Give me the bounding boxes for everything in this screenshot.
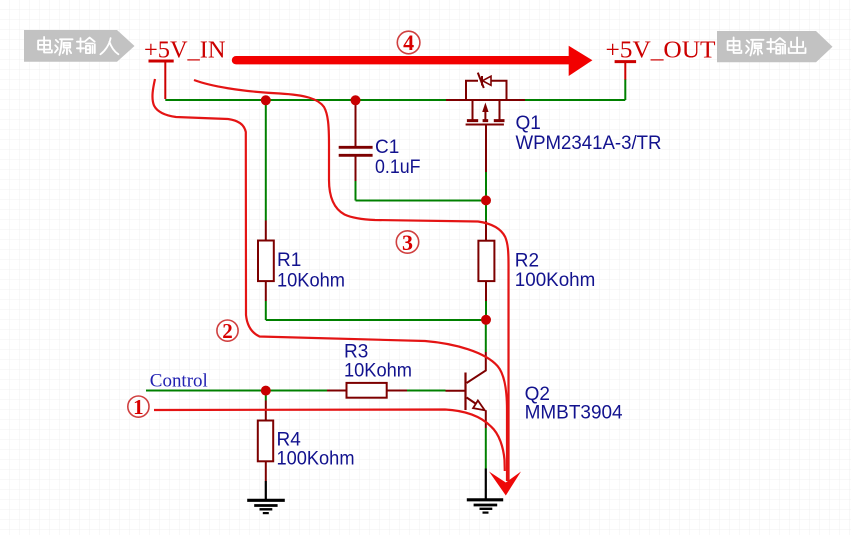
wire Q2 collector: [485, 320, 487, 352]
ground under R4: [247, 481, 285, 513]
power port +5V_OUT symbol: [615, 62, 637, 80]
transistor Q2 NPN: [446, 352, 486, 428]
circled number 2: [217, 319, 238, 343]
gate pin: [485, 125, 487, 173]
legs: [473, 100, 500, 121]
wire R1 branch lower: [265, 301, 267, 320]
wire bottom rail R1-R2: [266, 319, 486, 321]
svg-text:100Kohm: 100Kohm: [277, 449, 355, 470]
wire Q2 emitter down: [485, 428, 487, 469]
wire R1 branch upper: [265, 100, 267, 221]
svg-text:1: 1: [133, 395, 144, 419]
resistor R4: [265, 401, 267, 421]
wire C1 bottom: [356, 181, 487, 201]
svg-text:10Kohm: 10Kohm: [277, 270, 345, 291]
annotation arrow 4 (thick): [236, 46, 592, 76]
gate plate: [466, 124, 504, 126]
svg-text:+5V_OUT: +5V_OUT: [606, 37, 716, 63]
svg-text:WPM2341A-3/TR: WPM2341A-3/TR: [516, 133, 662, 154]
svg-text:Control: Control: [150, 371, 208, 392]
banner 电源输入 (power input flag): [24, 30, 135, 62]
contact bars: [467, 119, 505, 122]
junction node R1/R2/Q2: [481, 315, 491, 325]
ground under Q2: [467, 469, 503, 513]
annotation curve 1: [154, 410, 505, 472]
resistor R3: [327, 390, 347, 392]
svg-text:C1: C1: [375, 137, 399, 158]
junction node +5V/R1: [261, 95, 271, 105]
svg-text:R3: R3: [344, 342, 368, 363]
circled number 4: [397, 30, 420, 55]
wire R2 lower: [485, 301, 487, 320]
svg-text:0.1uF: 0.1uF: [375, 157, 421, 178]
svg-text:2: 2: [222, 319, 233, 343]
svg-text:100Kohm: 100Kohm: [515, 270, 596, 291]
resistor R2: [485, 221, 487, 241]
annotation big down arrow: [489, 472, 521, 496]
wire R4 upper: [265, 391, 267, 401]
svg-text:4: 4: [403, 30, 414, 55]
circled number 3: [396, 230, 418, 255]
svg-text:3: 3: [402, 230, 413, 255]
junction node gate/C1/R2: [481, 195, 491, 205]
wire Q1 drain to +5V_OUT: [525, 80, 625, 101]
resistor R1: [265, 221, 267, 241]
wire +5V_IN rail: [165, 99, 446, 101]
transistor Q1 PMOS: [446, 73, 525, 172]
annotation curve 2: [152, 79, 507, 481]
wire R3 to Q2 base: [407, 390, 446, 392]
power port +5V_IN symbol: [149, 61, 174, 99]
circled number 1: [128, 395, 149, 419]
wire R2 upper: [485, 201, 487, 221]
bulk arrow: [484, 108, 486, 121]
svg-text:MMBT3904: MMBT3904: [525, 402, 623, 423]
svg-text:10Kohm: 10Kohm: [344, 361, 412, 382]
junction node +5V/C1: [351, 95, 361, 105]
annotation curve 3: [194, 80, 509, 481]
svg-text:R2: R2: [515, 251, 539, 272]
banner 电源输出 (power output flag): [717, 31, 833, 62]
wire Q1 gate down: [485, 172, 487, 201]
svg-text:R4: R4: [277, 430, 302, 451]
source/drain pin line: [446, 99, 525, 101]
capacitor C1: [339, 103, 373, 181]
wire Control net: [146, 390, 327, 392]
svg-text:R1: R1: [277, 250, 301, 271]
body diode loop: [466, 81, 478, 100]
junction node Control/R4: [261, 386, 271, 396]
svg-text:Q1: Q1: [516, 113, 541, 134]
